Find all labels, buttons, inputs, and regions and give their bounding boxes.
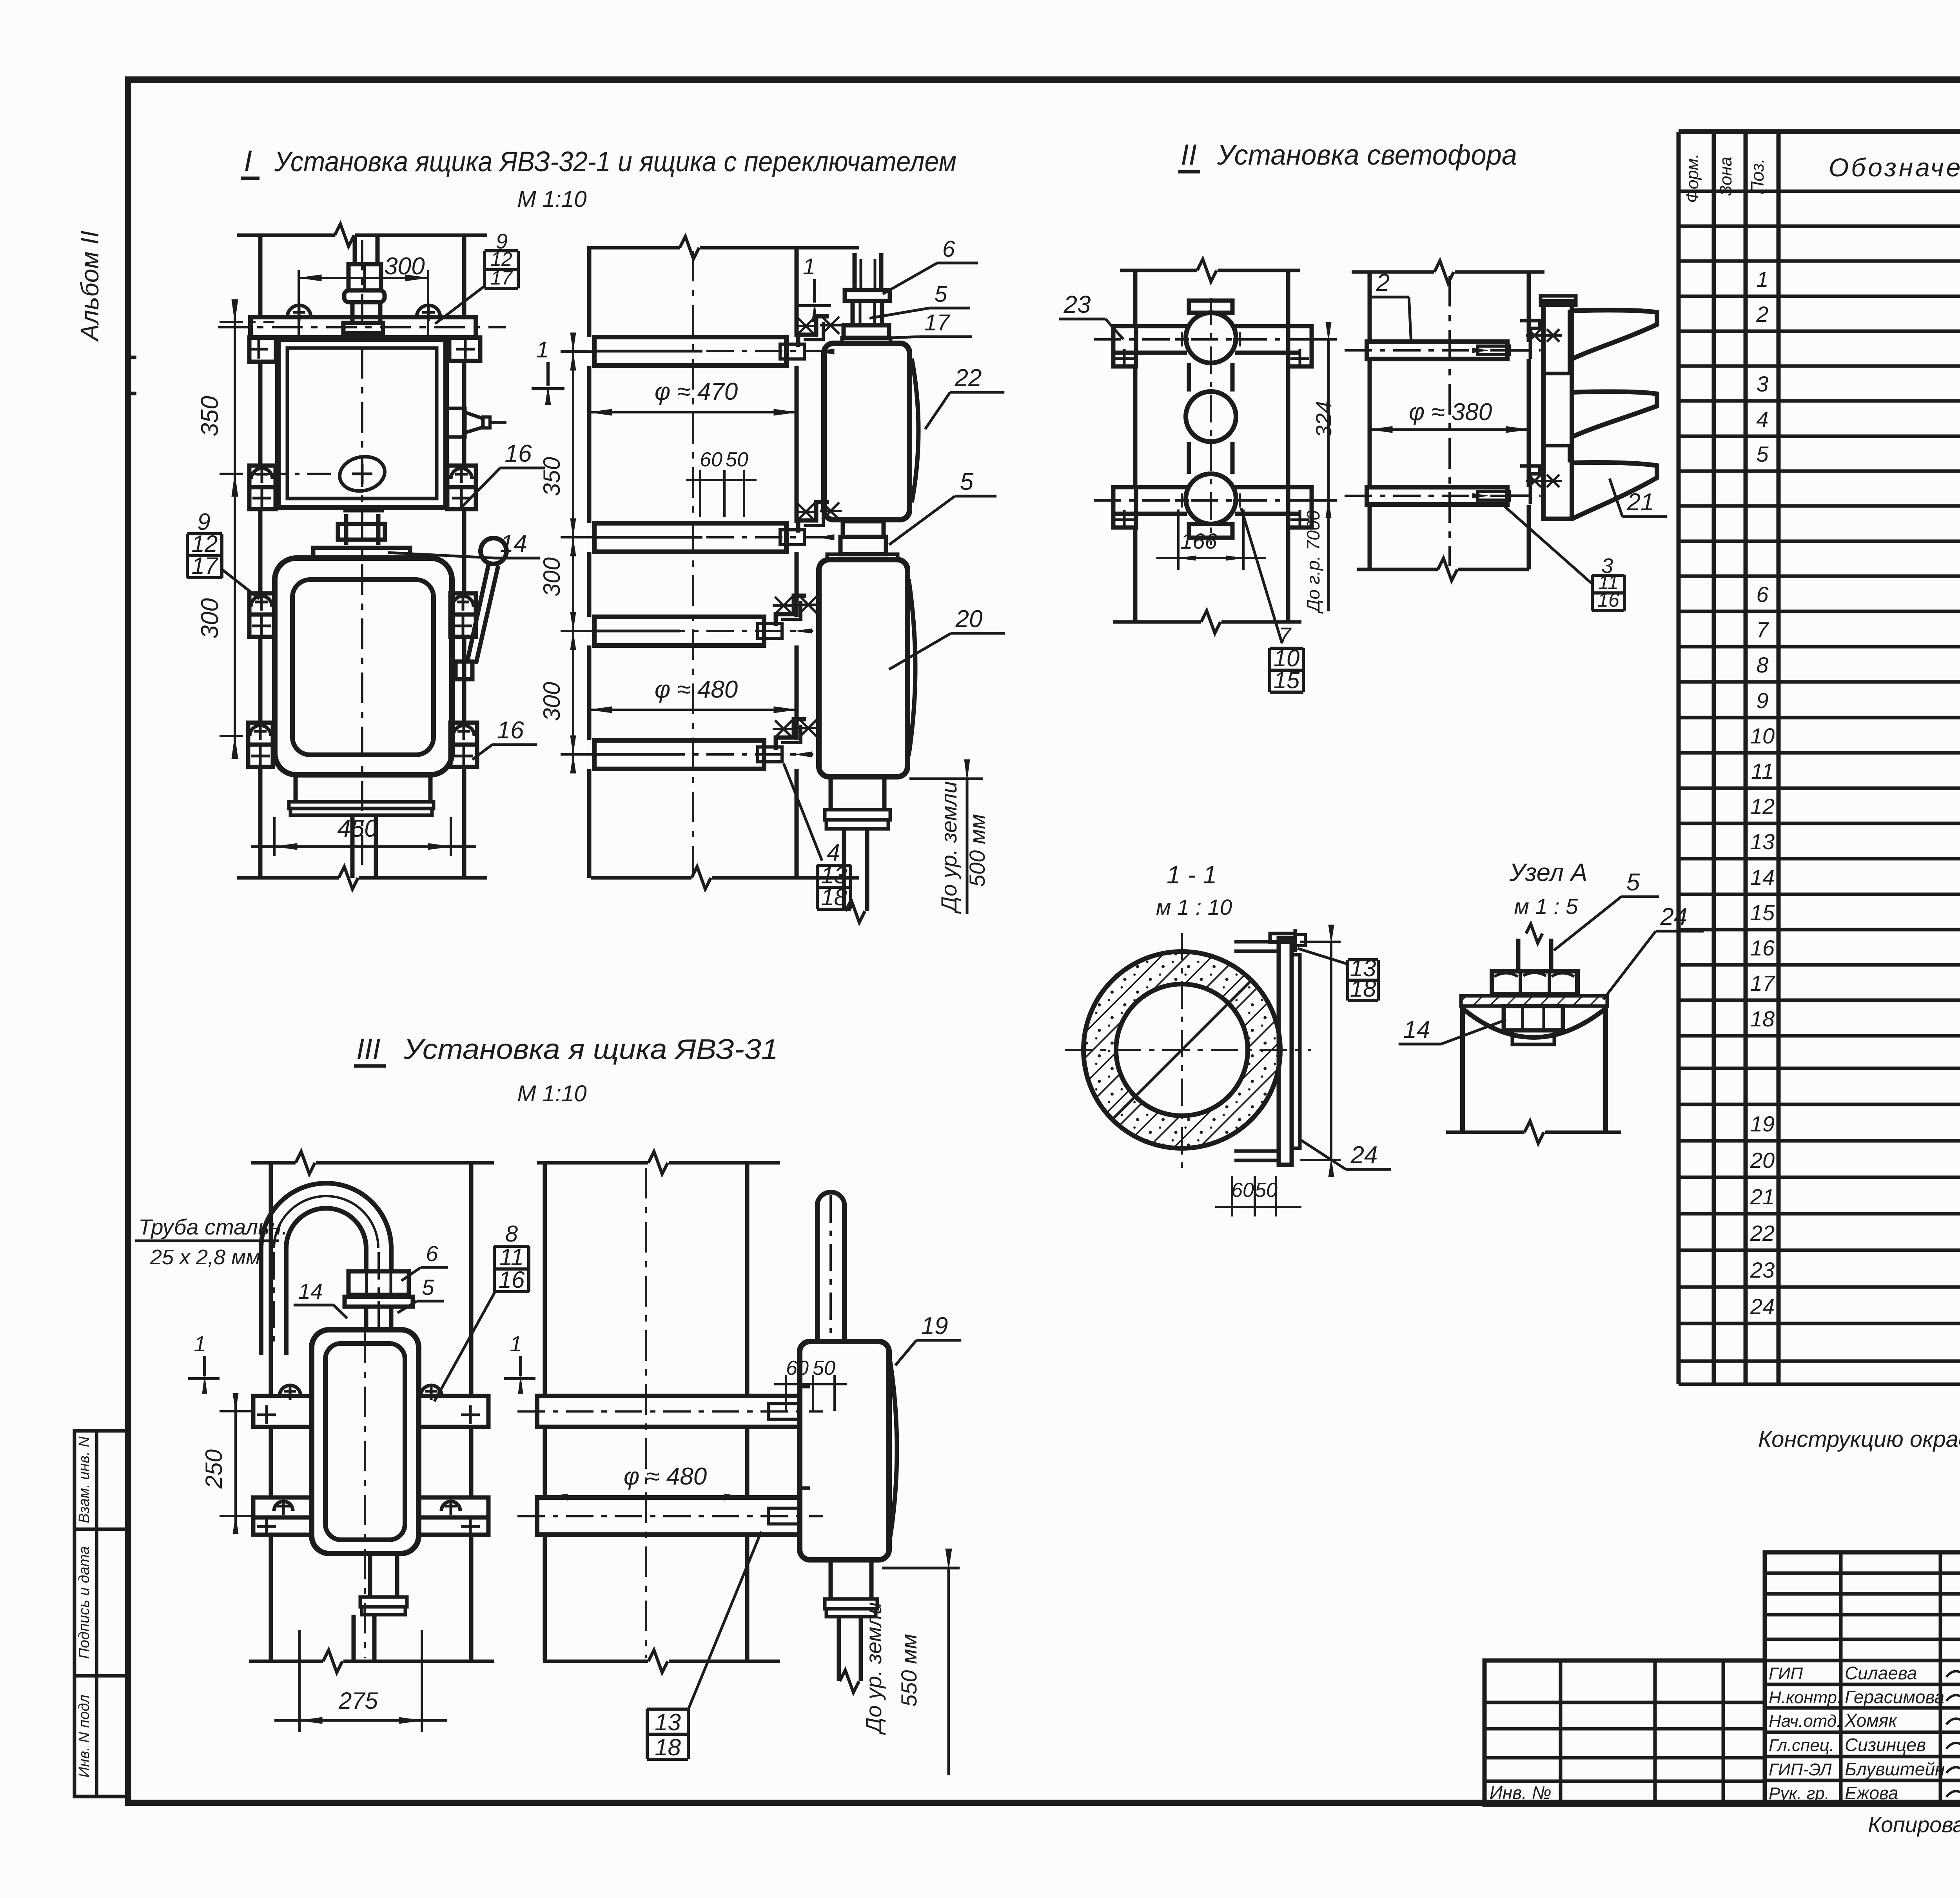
svg-text:Нач.отд.: Нач.отд. bbox=[1769, 1711, 1841, 1731]
III front: dim 250 bbox=[220, 1410, 253, 1412]
svg-text:φ ≈ 480: φ ≈ 480 bbox=[655, 676, 738, 703]
svg-text:1: 1 bbox=[803, 254, 815, 279]
svg-text:2: 2 bbox=[1376, 269, 1390, 296]
II front: dim 324 + ground ref bbox=[1299, 338, 1337, 341]
1-1: pole cross-section with hatched wall bbox=[1083, 952, 1280, 1148]
svg-text:250: 250 bbox=[201, 1449, 227, 1489]
svg-text:φ ≈ 480: φ ≈ 480 bbox=[624, 1463, 707, 1490]
svg-text:φ ≈ 380: φ ≈ 380 bbox=[1409, 399, 1492, 426]
svg-text:5: 5 bbox=[935, 281, 947, 307]
1-1: strap tangent plates bbox=[1234, 940, 1279, 944]
svg-text:1: 1 bbox=[536, 337, 549, 363]
I front: dim 300 left bbox=[220, 735, 247, 737]
svg-text:14: 14 bbox=[1750, 865, 1775, 890]
I side: box 22 bbox=[824, 343, 909, 520]
svg-text:13: 13 bbox=[1750, 829, 1775, 854]
svg-text:Установка ящика ЯВЗ-32-1 и: Установка ящика ЯВЗ-32-1 и ящика с перек… bbox=[274, 146, 956, 178]
svg-text:5: 5 bbox=[1756, 442, 1769, 466]
svg-text:22: 22 bbox=[1750, 1221, 1775, 1245]
I front: strap 1 end plates bbox=[249, 337, 276, 362]
I side: dim phi480 bbox=[589, 709, 797, 711]
I front: bottom break line bbox=[237, 876, 339, 880]
svg-text:1 - 1: 1 - 1 bbox=[1167, 861, 1217, 889]
svg-text:50: 50 bbox=[1255, 1179, 1278, 1202]
svg-text:166: 166 bbox=[1180, 529, 1217, 553]
II side: pole bbox=[1368, 272, 1372, 342]
svg-text:5: 5 bbox=[1626, 869, 1640, 896]
svg-text:16: 16 bbox=[499, 1267, 525, 1293]
svg-text:Подпись и дата: Подпись и дата bbox=[76, 1546, 93, 1659]
1-1: right vertical dim bbox=[1300, 941, 1341, 943]
svg-text:Силаева: Силаева bbox=[1845, 1663, 1917, 1683]
svg-text:М 1:10: М 1:10 bbox=[517, 1081, 586, 1106]
svg-text:М 1:10: М 1:10 bbox=[517, 187, 586, 212]
II side: zet brackets bbox=[1520, 321, 1540, 359]
I front view: pole bbox=[258, 237, 263, 317]
svg-text:м 1 : 10: м 1 : 10 bbox=[1156, 895, 1232, 919]
svg-text:16: 16 bbox=[505, 440, 532, 467]
svg-text:До г.р. 7000: До г.р. 7000 bbox=[1303, 510, 1323, 614]
uzel A: washer plate hatched (item 24) bbox=[1461, 996, 1607, 1006]
svg-text:7: 7 bbox=[1756, 617, 1769, 642]
svg-text:Форм.: Форм. bbox=[1683, 154, 1702, 203]
svg-text:II: II bbox=[1181, 138, 1197, 171]
III side: dim phi480 bbox=[545, 1496, 747, 1498]
svg-text:60: 60 bbox=[1231, 1179, 1254, 1202]
svg-text:6: 6 bbox=[426, 1241, 438, 1266]
svg-text:5: 5 bbox=[960, 468, 974, 495]
II front: traffic light stack bbox=[1189, 301, 1232, 313]
svg-text:Труба стальн.: Труба стальн. bbox=[138, 1215, 288, 1239]
svg-text:300: 300 bbox=[539, 557, 565, 596]
I front: box2 lower strap plates bbox=[248, 723, 273, 745]
svg-text:4: 4 bbox=[1756, 407, 1768, 431]
svg-text:24: 24 bbox=[1660, 903, 1688, 930]
svg-text:300: 300 bbox=[539, 682, 565, 721]
I front: dim 350 left bbox=[220, 321, 274, 323]
III front: dim 275 bbox=[298, 1630, 301, 1732]
svg-text:20: 20 bbox=[1750, 1148, 1775, 1173]
I front: box2 upper strap plates bbox=[249, 593, 274, 615]
svg-text:23: 23 bbox=[1750, 1258, 1775, 1282]
I front: strap 1 band pos.1 bbox=[250, 317, 476, 337]
III side: pole bbox=[543, 1163, 547, 1396]
svg-text:1: 1 bbox=[510, 1331, 522, 1356]
svg-text:φ ≈ 470: φ ≈ 470 bbox=[655, 378, 738, 405]
svg-text:Хомяк: Хомяк bbox=[1844, 1710, 1898, 1731]
II side: signal backplate bbox=[1543, 301, 1572, 519]
title block bbox=[1765, 1552, 1960, 1805]
svg-text:8: 8 bbox=[1756, 653, 1768, 677]
svg-text:Сизинцев: Сизинцев bbox=[1845, 1735, 1926, 1755]
III front: box YaVZ-31 (item 19) bbox=[312, 1330, 419, 1554]
uzel A: pole wall curve bbox=[1461, 1007, 1607, 1037]
I side: dim phi470 bbox=[589, 411, 797, 413]
svg-text:60: 60 bbox=[786, 1357, 809, 1380]
svg-text:6: 6 bbox=[942, 236, 955, 262]
svg-text:17: 17 bbox=[490, 267, 513, 289]
svg-text:10: 10 bbox=[1750, 723, 1775, 748]
svg-text:Узел А: Узел А bbox=[1509, 858, 1587, 886]
I side: dim 350/300/300 bbox=[572, 333, 574, 772]
I side: coupling & nut between boxes bbox=[843, 521, 884, 537]
svg-text:50: 50 bbox=[813, 1357, 835, 1380]
svg-text:Н.контр.: Н.контр. bbox=[1769, 1688, 1842, 1707]
svg-text:19: 19 bbox=[1750, 1111, 1775, 1136]
I front: centerline bbox=[361, 240, 363, 874]
uzel A: stud pipe bbox=[1516, 939, 1521, 971]
I front: bottom neck and flange bbox=[294, 775, 298, 802]
svg-text:16: 16 bbox=[1750, 935, 1775, 960]
svg-text:60: 60 bbox=[700, 448, 722, 471]
1-1: vertical strip (item 24 zet profile) bbox=[1279, 938, 1292, 1165]
II front: pole bbox=[1133, 270, 1138, 326]
svg-text:14: 14 bbox=[500, 530, 527, 557]
svg-text:18: 18 bbox=[655, 1734, 681, 1760]
III front: neck, flange, pipe bbox=[368, 1554, 372, 1597]
svg-text:17: 17 bbox=[924, 310, 951, 335]
svg-text:До ур. земли: До ур. земли bbox=[936, 781, 961, 914]
svg-text:Герасимова: Герасимова bbox=[1845, 1687, 1944, 1707]
svg-text:2: 2 bbox=[1756, 302, 1768, 326]
svg-text:16: 16 bbox=[497, 717, 524, 744]
svg-text:До ур. земли: До ур. земли bbox=[861, 1602, 886, 1735]
svg-text:8: 8 bbox=[505, 1221, 518, 1247]
I side view: pole bbox=[587, 248, 592, 337]
svg-text:Копировал: Копировал bbox=[1868, 1812, 1960, 1837]
svg-text:14: 14 bbox=[1403, 1016, 1430, 1043]
I front: switch lever bbox=[481, 538, 506, 564]
III side: box 19 bbox=[800, 1341, 889, 1560]
1-1: centerlines and diagonal bbox=[1065, 1049, 1311, 1051]
II side: dim phi380 bbox=[1370, 428, 1529, 431]
svg-text:275: 275 bbox=[338, 1688, 378, 1714]
I side: box 20 bbox=[819, 560, 907, 777]
III front: pole bbox=[269, 1163, 273, 1396]
svg-text:19: 19 bbox=[921, 1312, 948, 1340]
svg-text:18: 18 bbox=[821, 884, 847, 910]
svg-text:ГИП: ГИП bbox=[1769, 1664, 1803, 1683]
III front: steel conduit U-bend bbox=[261, 1183, 391, 1248]
svg-text:3: 3 bbox=[1756, 372, 1768, 396]
I front: nipple between boxes (item 14 area) bbox=[343, 509, 384, 513]
svg-text:Установка светофора: Установка светофора bbox=[1217, 140, 1517, 171]
I front: side fitting bracket bbox=[447, 408, 465, 437]
I front: top break line bbox=[237, 234, 335, 237]
svg-text:450: 450 bbox=[337, 815, 377, 842]
II side: visor housings (item 21) bbox=[1572, 310, 1657, 359]
I front: box1 lower strap plates bbox=[249, 466, 276, 487]
I side: strap bands (item 1) bbox=[594, 337, 786, 366]
frame tick marks bbox=[128, 356, 136, 359]
svg-text:350: 350 bbox=[196, 396, 223, 436]
svg-text:15: 15 bbox=[1274, 667, 1300, 693]
svg-text:9: 9 bbox=[1756, 688, 1768, 713]
II front: dim 166 bbox=[1177, 509, 1180, 570]
svg-text:24: 24 bbox=[1350, 1142, 1378, 1169]
svg-text:350: 350 bbox=[539, 457, 565, 496]
III side: ground dim 550 bbox=[882, 1567, 960, 1570]
svg-text:6: 6 bbox=[1756, 582, 1769, 607]
svg-text:5: 5 bbox=[422, 1275, 434, 1300]
II side: strap bands (item 2) bbox=[1367, 342, 1507, 359]
svg-text:Инв. №: Инв. № bbox=[1490, 1782, 1552, 1803]
svg-text:25 х 2,8 мм: 25 х 2,8 мм bbox=[150, 1245, 260, 1269]
svg-text:1: 1 bbox=[194, 1331, 206, 1356]
svg-text:Блувштейн: Блувштейн bbox=[1845, 1759, 1945, 1779]
III front: strap bands bbox=[253, 1396, 312, 1427]
III front: coupling nut on right leg bbox=[348, 1271, 409, 1295]
I front: box with switch (item 22) bbox=[278, 339, 446, 508]
uzel A: lower nut bbox=[1504, 1006, 1563, 1030]
svg-text:23: 23 bbox=[1063, 291, 1091, 318]
svg-text:I: I bbox=[244, 145, 252, 178]
svg-text:21: 21 bbox=[1627, 489, 1654, 516]
I side: box20 neck/flange/pipe bbox=[829, 777, 833, 810]
svg-text:550 мм: 550 мм bbox=[897, 1634, 921, 1707]
svg-text:Установка я щика ЯВЗ-31: Установка я щика ЯВЗ-31 bbox=[403, 1034, 778, 1065]
I front: dim 300 ext lines bbox=[298, 270, 300, 335]
svg-text:м 1 : 5: м 1 : 5 bbox=[1514, 894, 1579, 919]
I front: riser pipe above box 1 bbox=[353, 237, 357, 264]
I side: zet profiles and bolts at straps bbox=[798, 316, 829, 347]
svg-text:18: 18 bbox=[1350, 975, 1376, 1002]
margin stamp boxes bottom-left bbox=[74, 1431, 128, 1796]
I front: box YaVZ-32-1 (item 20) bbox=[275, 558, 452, 775]
svg-text:50: 50 bbox=[726, 448, 748, 471]
svg-text:300: 300 bbox=[196, 598, 223, 638]
svg-text:4: 4 bbox=[827, 839, 840, 866]
I side: pipe, coupling, nut above box22 (items 6,5,17,14) bbox=[853, 253, 857, 290]
svg-text:17: 17 bbox=[192, 553, 219, 579]
svg-text:17: 17 bbox=[1750, 971, 1775, 995]
svg-text:24: 24 bbox=[1750, 1294, 1775, 1319]
III side: neck/flange/pipe bbox=[829, 1560, 833, 1599]
svg-text:Поз.: Поз. bbox=[1747, 158, 1768, 195]
svg-text:11: 11 bbox=[1751, 759, 1774, 783]
svg-text:18: 18 bbox=[1750, 1006, 1775, 1031]
svg-text:Ежова: Ежова bbox=[1845, 1783, 1898, 1803]
svg-text:16: 16 bbox=[1597, 589, 1619, 611]
svg-text:Рук. гр.: Рук. гр. bbox=[1769, 1784, 1829, 1803]
1-1: bolt at top bbox=[1270, 934, 1295, 942]
I side: ground level dim 500 bbox=[909, 778, 983, 780]
I front: oval knockout bbox=[336, 453, 388, 495]
svg-text:ГИП-ЭЛ: ГИП-ЭЛ bbox=[1769, 1760, 1832, 1779]
I front: dim 300 top bbox=[299, 277, 428, 279]
III side: strap bands bbox=[537, 1396, 800, 1427]
svg-text:Зона: Зона bbox=[1716, 157, 1735, 196]
III side: conduit seen end-on bbox=[817, 1192, 844, 1341]
svg-text:324: 324 bbox=[1311, 401, 1336, 437]
svg-text:13: 13 bbox=[655, 1709, 681, 1735]
svg-text:Инв. N подл: Инв. N подл bbox=[76, 1695, 93, 1778]
svg-text:15: 15 bbox=[1750, 900, 1775, 925]
svg-text:11: 11 bbox=[499, 1244, 524, 1270]
uzel A: upper locknut (item 14) bbox=[1492, 971, 1577, 994]
svg-text:Альбом II: Альбом II bbox=[76, 230, 104, 342]
II front: strap bands bbox=[1113, 324, 1187, 328]
I front: dim 450 bbox=[273, 817, 276, 856]
svg-text:Обозначение: Обозначение bbox=[1829, 153, 1960, 182]
svg-text:1: 1 bbox=[1756, 267, 1768, 292]
svg-text:Взам. инв. N: Взам. инв. N bbox=[76, 1436, 93, 1523]
svg-text:12: 12 bbox=[1750, 794, 1775, 819]
svg-text:500 мм: 500 мм bbox=[965, 814, 989, 887]
svg-text:14: 14 bbox=[298, 1279, 323, 1303]
svg-text:22: 22 bbox=[955, 364, 982, 392]
svg-text:300: 300 bbox=[384, 253, 425, 280]
svg-text:21: 21 bbox=[1750, 1184, 1775, 1209]
svg-text:Конструкцию окрасить серой: Конструкцию окрасить серой масляной крас… bbox=[1758, 1427, 1960, 1452]
svg-text:20: 20 bbox=[955, 605, 983, 633]
svg-text:Гл.спец.: Гл.спец. bbox=[1769, 1736, 1834, 1755]
svg-text:III: III bbox=[356, 1033, 381, 1065]
